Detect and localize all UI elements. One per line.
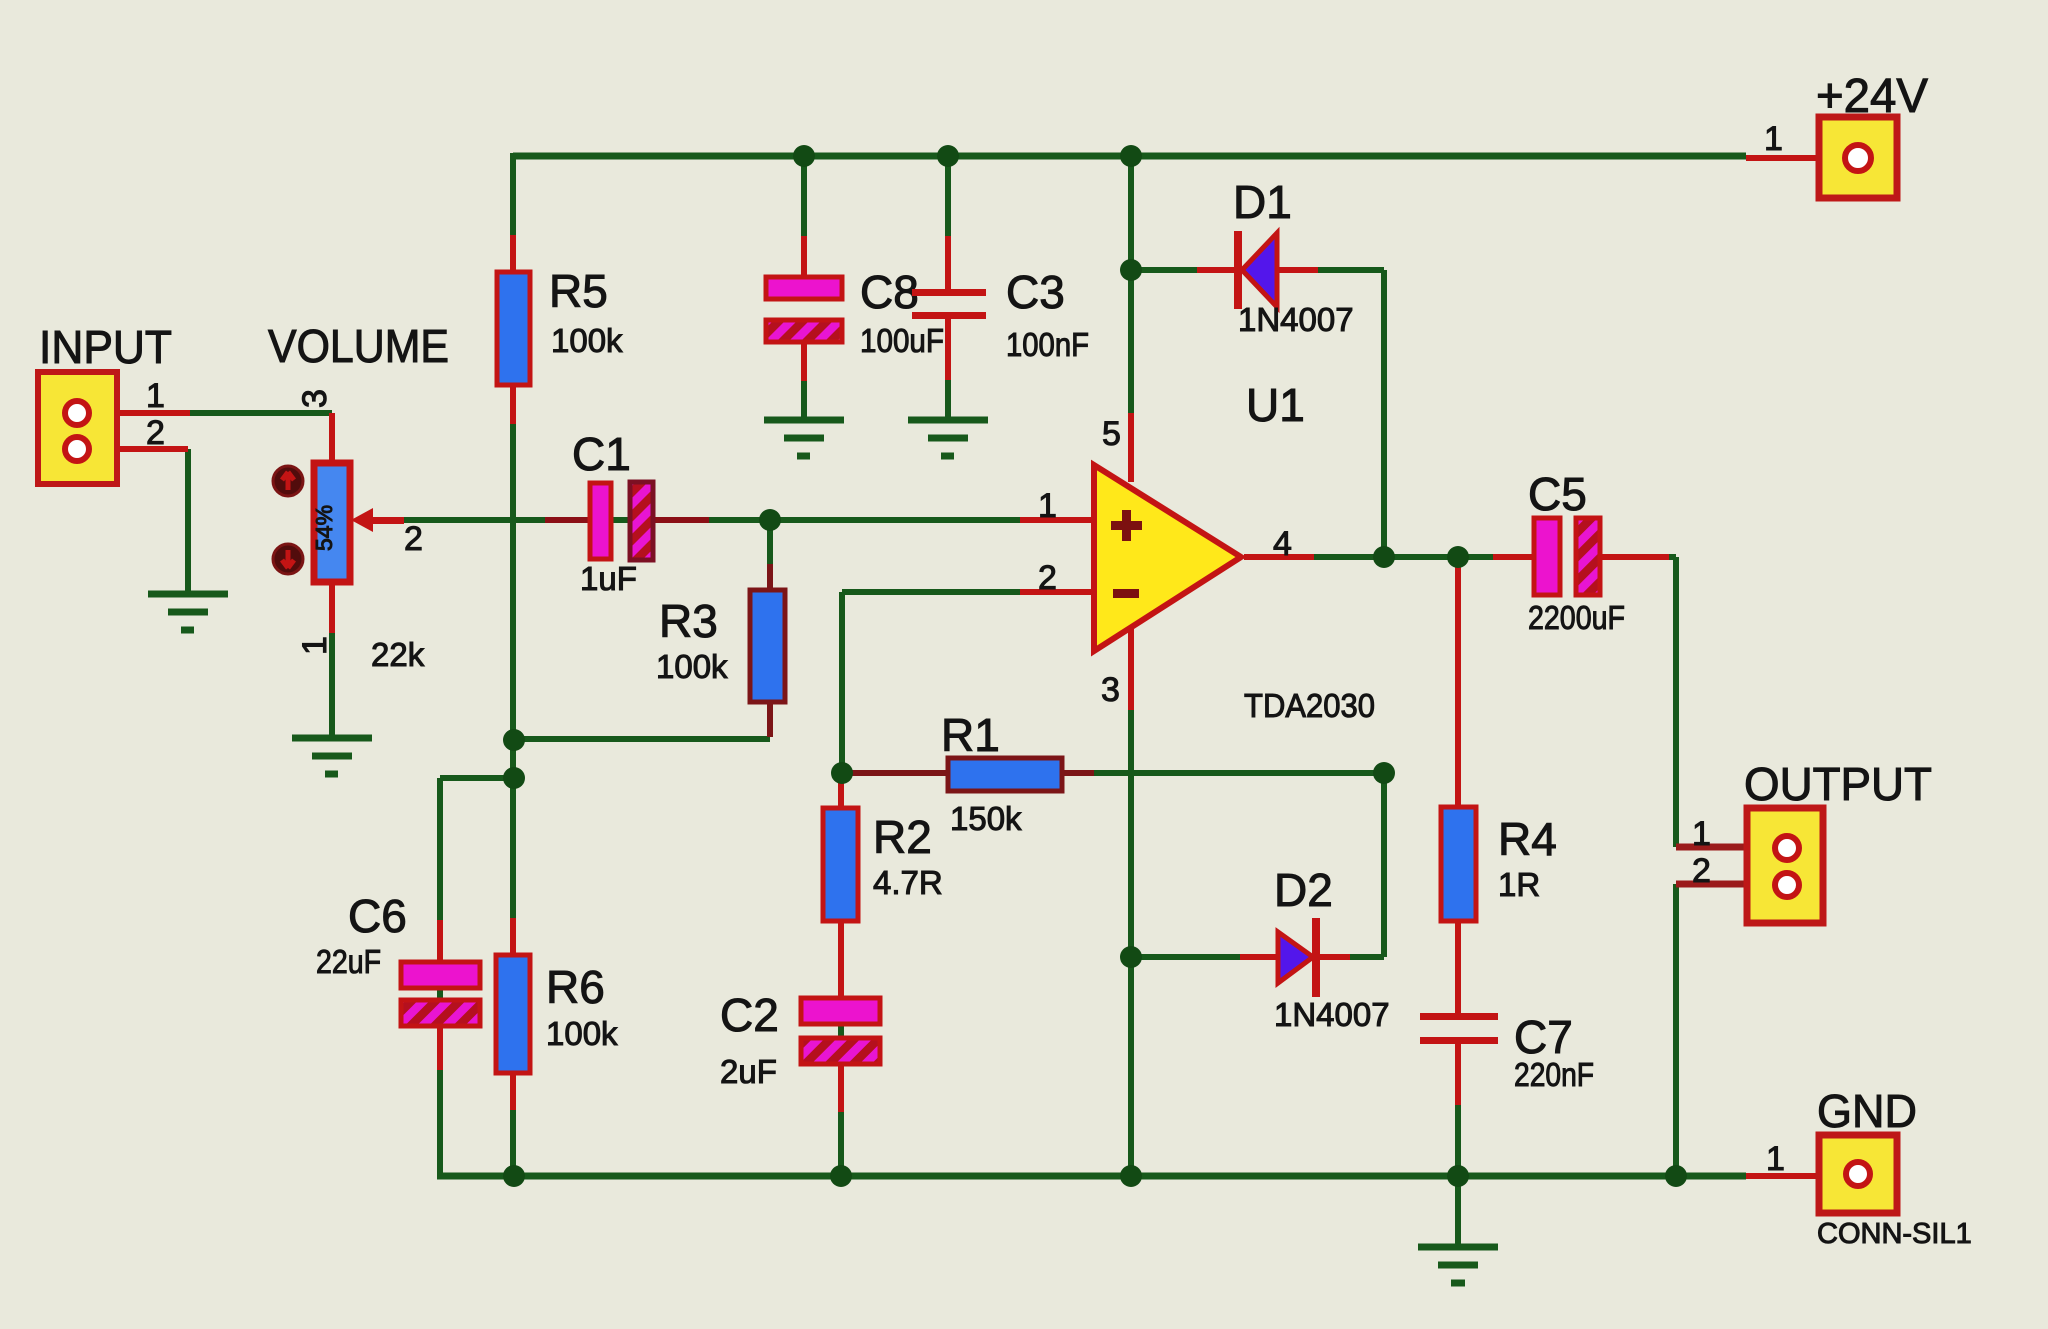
- svg-text:100k: 100k: [546, 1015, 618, 1052]
- svg-text:C1: C1: [572, 428, 631, 480]
- svg-text:2: 2: [1038, 559, 1057, 597]
- svg-text:OUTPUT: OUTPUT: [1744, 758, 1932, 810]
- connector J1 INPUT: [38, 321, 190, 484]
- wire: +24V top rail: [513, 153, 1746, 160]
- wire: output net pin4 to C5: [1244, 554, 1534, 560]
- resistor R4 1R: [1441, 563, 1557, 1015]
- node: rail-C2 junction: [830, 1165, 852, 1187]
- potentiometer RV1 VOLUME 22k: [268, 320, 449, 673]
- svg-text:100k: 100k: [551, 322, 623, 359]
- node: C1-R3 junction: [759, 509, 781, 531]
- node: rail-C7 junction: [1447, 1165, 1469, 1187]
- svg-text:1: 1: [1764, 120, 1783, 158]
- svg-text:3: 3: [1101, 671, 1120, 709]
- capacitor C6 22uF: [316, 890, 480, 1070]
- wire: C3 branch top: [945, 156, 951, 289]
- node: rail-R6 junction: [503, 1165, 525, 1187]
- svg-text:R2: R2: [873, 811, 932, 863]
- node: D1 anode junction: [1120, 259, 1142, 281]
- capacitor C8 100uF: [766, 236, 944, 381]
- wire: U1 pin 5 supply column: [1128, 156, 1134, 478]
- node: rail-C8 junction: [793, 145, 815, 167]
- svg-text:R6: R6: [546, 961, 605, 1013]
- svg-text:5: 5: [1102, 415, 1121, 453]
- svg-text:1: 1: [1766, 1140, 1785, 1178]
- svg-text:54%: 54%: [311, 505, 337, 551]
- capacitor C5 2200uF: [1493, 468, 1669, 636]
- capacitor C3 100nF: [912, 236, 1089, 380]
- svg-text:3: 3: [296, 389, 334, 408]
- node: D2 anode junction: [1120, 946, 1142, 968]
- wire: C6 branch: [440, 778, 514, 1176]
- wire: INPUT pin 2 to ground: [185, 449, 191, 593]
- svg-text:220nF: 220nF: [1514, 1056, 1594, 1093]
- resistor R2 4.7R: [823, 773, 943, 921]
- wire: U1 pin 3 to ground rail: [1128, 626, 1134, 1176]
- wire: D1 anode-cathode net: [1131, 270, 1384, 557]
- wire: C8 branch top: [801, 156, 807, 277]
- node: feedback-output junction: [1373, 762, 1395, 784]
- resistor R3 100k: [656, 564, 785, 702]
- svg-text:C6: C6: [348, 890, 407, 942]
- connector +24V power terminal: [1746, 70, 1928, 198]
- svg-text:INPUT: INPUT: [39, 321, 172, 373]
- svg-text:+24V: +24V: [1816, 70, 1928, 123]
- svg-text:1: 1: [1038, 487, 1057, 525]
- node: rail-OUTPUT junction: [1665, 1165, 1687, 1187]
- svg-text:1uF: 1uF: [580, 560, 637, 597]
- node: bias-C6 junction: [503, 767, 525, 789]
- wire: volume wiper to C1 to pin 1: [404, 517, 1094, 523]
- svg-text:2: 2: [404, 520, 423, 558]
- svg-text:VOLUME: VOLUME: [268, 320, 449, 372]
- ground (supply rail bottom): [1418, 1247, 1498, 1283]
- capacitor C2 2uF: [720, 921, 880, 1112]
- svg-text:22uF: 22uF: [316, 943, 381, 980]
- svg-text:4.7R: 4.7R: [873, 864, 943, 901]
- svg-text:22k: 22k: [371, 636, 425, 673]
- capacitor C1 1uF: [545, 428, 709, 597]
- wire: volume pin 1 to ground: [329, 582, 335, 737]
- svg-text:C3: C3: [1006, 266, 1065, 318]
- svg-text:D1: D1: [1233, 176, 1292, 228]
- resistor R1 150k: [842, 709, 1094, 837]
- ground (volume pin 1): [292, 738, 372, 774]
- svg-text:1N4007: 1N4007: [1238, 301, 1354, 338]
- svg-text:4: 4: [1273, 525, 1292, 563]
- node: inverting input junction: [831, 762, 853, 784]
- wire: OUTPUT pin 2 to ground rail: [1676, 884, 1751, 1176]
- svg-text:1: 1: [296, 636, 334, 655]
- node: rail-U1pin3 junction: [1120, 1165, 1142, 1187]
- wire: R3 column and bottom link: [514, 520, 773, 739]
- svg-text:C5: C5: [1528, 468, 1587, 520]
- svg-text:1: 1: [146, 377, 165, 415]
- diode D2 1N4007: [1240, 864, 1390, 1033]
- node: rail-C3 junction: [937, 145, 959, 167]
- resistor R6 100k: [496, 918, 618, 1110]
- svg-text:TDA2030: TDA2030: [1244, 687, 1375, 724]
- svg-text:R5: R5: [549, 265, 608, 317]
- wire: D2 clamp net: [1131, 773, 1384, 957]
- svg-text:1R: 1R: [1498, 866, 1540, 903]
- wire: C3 branch bottom to ground: [945, 318, 951, 419]
- svg-text:R4: R4: [1498, 813, 1557, 865]
- svg-text:R3: R3: [659, 595, 718, 647]
- wire: R4/C7 to rail and ground: [1455, 1105, 1461, 1247]
- op-amp U1 TDA2030: [1020, 379, 1375, 724]
- ground (input): [148, 594, 228, 630]
- svg-text:GND: GND: [1817, 1085, 1917, 1137]
- wire: INPUT pin 1 to volume pin 3: [190, 413, 332, 463]
- wire: feedback R1 net: [842, 770, 1384, 776]
- node: rail-U1 junction: [1120, 145, 1142, 167]
- wire: R2 C2 column: [838, 773, 844, 1176]
- svg-text:D2: D2: [1274, 864, 1333, 916]
- svg-text:2: 2: [1692, 852, 1711, 890]
- ground (C8): [764, 420, 844, 456]
- svg-text:C2: C2: [720, 989, 779, 1041]
- svg-text:150k: 150k: [950, 800, 1022, 837]
- svg-text:100nF: 100nF: [1006, 326, 1089, 363]
- node: output-R4 junction: [1447, 546, 1469, 568]
- wire: R5/R6 bias divider column: [510, 153, 516, 1176]
- svg-text:100uF: 100uF: [860, 322, 944, 359]
- svg-text:U1: U1: [1246, 379, 1305, 431]
- svg-text:1N4007: 1N4007: [1274, 996, 1390, 1033]
- ground (C3): [908, 420, 988, 456]
- connector J2 OUTPUT: [1676, 758, 1932, 923]
- svg-text:2uF: 2uF: [720, 1053, 777, 1090]
- svg-text:100k: 100k: [656, 648, 728, 685]
- svg-text:CONN-SIL1: CONN-SIL1: [1817, 1218, 1972, 1250]
- wire: pin 2 inverting input net: [842, 592, 1094, 773]
- svg-text:2: 2: [146, 414, 165, 452]
- node: output-D1 junction: [1373, 546, 1395, 568]
- node: bias-R3 junction: [503, 729, 525, 751]
- capacitor C7 220nF: [1420, 1011, 1594, 1105]
- resistor R5 100k: [497, 235, 623, 424]
- wire: bottom ground rail: [437, 1173, 1746, 1180]
- svg-text:C8: C8: [860, 266, 919, 318]
- wire: C8 branch bottom to ground: [801, 342, 807, 419]
- diode D1 1N4007: [1197, 176, 1354, 338]
- svg-text:2200uF: 2200uF: [1528, 599, 1625, 636]
- svg-text:R1: R1: [941, 709, 1000, 761]
- svg-text:1: 1: [1692, 815, 1711, 853]
- connector J3 GND CONN-SIL1: [1746, 1085, 1972, 1250]
- wire: output to R4 column: [1455, 557, 1461, 807]
- wire: C5 to OUTPUT pin 1: [1600, 557, 1751, 847]
